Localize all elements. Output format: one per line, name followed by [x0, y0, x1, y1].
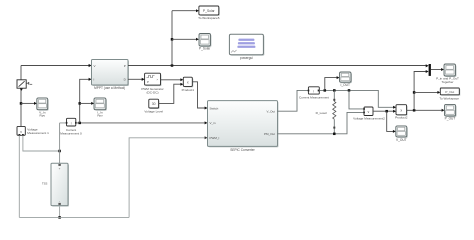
wire up to mux input 2: [414, 72, 426, 111]
svg-text:R_Load: R_Load: [316, 111, 327, 115]
product P1: [182, 77, 195, 92]
wire SEPIC PM_Out along bottom net: [277, 112, 364, 133]
P_Out to-workspace box: [439, 88, 460, 101]
svg-text:Switch: Switch: [210, 106, 219, 110]
scope display I (display2): [94, 98, 107, 118]
svg-text:MPPT (use a Method): MPPT (use a Method): [94, 86, 125, 90]
wire I trunk up to MPPT: [80, 79, 89, 123]
svg-text:x: x: [400, 108, 402, 112]
PV array block TSS: [42, 163, 69, 206]
wire V trunk from VM1 up: [20, 66, 22, 127]
P_Solar scope: [199, 34, 212, 51]
svg-text:P: P: [124, 64, 126, 68]
svg-text:P: P: [147, 80, 149, 84]
P_Solar goto (To Workspace5): [198, 6, 220, 20]
node junction at (334.3,133.8): [333, 133, 336, 136]
wire PV bottom to rail: [59, 206, 61, 218]
wire bottom rail: [19, 216, 129, 218]
wire top net to VM2 plus: [349, 90, 364, 109]
constant Voltage Level 30: [144, 99, 163, 113]
node junction at (324.8,90.4): [324, 89, 327, 92]
wire up to I_OUT scope: [325, 78, 337, 91]
ramp block Irr: [17, 80, 32, 91]
svg-text:Product1: Product1: [182, 88, 195, 92]
wire down to V_OUT scope: [387, 111, 394, 131]
svg-text:30: 30: [152, 102, 156, 106]
svg-text:PM_Out: PM_Out: [264, 132, 275, 136]
svg-text:I_OUT: I_OUT: [340, 83, 350, 87]
scope V_OUT: [396, 126, 408, 142]
node junction at (172,65.5): [171, 64, 174, 67]
node junction at (79.7,122.9): [78, 122, 81, 125]
node junction at (414.1,109.8): [413, 109, 416, 112]
svg-text:PWM_I: PWM_I: [210, 136, 220, 140]
current measurement CM0: [60, 118, 82, 135]
wire rail up to SEPIC PWM_I: [129, 138, 205, 218]
svg-text:Current Measurement: Current Measurement: [299, 96, 329, 100]
svg-text:To Workspace: To Workspace: [439, 97, 459, 101]
wire CM out along top net to Product2: [319, 90, 393, 107]
svg-text:P_Solar: P_Solar: [199, 47, 211, 51]
wire const to Product1 second input: [159, 84, 181, 103]
svg-text:SEPIC Converter: SEPIC Converter: [230, 148, 255, 152]
node junction at (349,90.4): [348, 89, 351, 92]
scope P_OUT: [445, 104, 457, 120]
wire VM1 bottom-right to PV node: [23, 135, 60, 151]
svg-text:Rpv: Rpv: [40, 114, 46, 118]
powergui block: [229, 34, 264, 60]
svg-text:Ppv: Ppv: [97, 114, 103, 118]
svg-text:powergui: powergui: [240, 56, 253, 60]
svg-text:Voltage Level: Voltage Level: [144, 110, 163, 114]
SEPIC converter block: [208, 101, 279, 152]
scope P_in and P_OuT Together: [436, 64, 459, 84]
node junction at (386.7,111.2): [385, 110, 388, 113]
svg-text:Measurement 0: Measurement 0: [60, 132, 82, 136]
svg-text:Product2: Product2: [395, 115, 408, 119]
svg-text:Measurement 1: Measurement 1: [27, 131, 49, 135]
node junction at (59.6,151): [58, 150, 61, 153]
wire trunk up to P_Solar: [171, 11, 173, 66]
scope display V (display1): [37, 98, 49, 118]
wire to I display: [80, 102, 92, 104]
svg-text:P_Solar: P_Solar: [203, 9, 216, 13]
wire PV top to CM0: [60, 123, 67, 163]
svg-text:TSS: TSS: [42, 181, 48, 185]
svg-text:+: +: [59, 167, 61, 171]
node junction at (414.1,92.4): [413, 91, 416, 94]
svg-text:Together: Together: [441, 80, 453, 84]
wire VM2 out to Product2: [373, 110, 393, 112]
node junction at (21,103.4): [20, 102, 23, 105]
wire CM0 to SEPIC V_in: [76, 122, 205, 124]
PWM generator block: [141, 73, 163, 94]
svg-text:P_OUT: P_OUT: [445, 117, 456, 121]
wire VM1 bottom-left to rail: [18, 135, 20, 217]
svg-text:V: V: [94, 64, 96, 68]
current measurement CM: [299, 87, 329, 100]
wire SEPIC V_Out to current measurement: [277, 90, 308, 111]
MPPT block: [92, 60, 130, 90]
wire to P_Solar goto: [172, 10, 196, 12]
product P2: [395, 105, 408, 120]
svg-text:V_in: V_in: [210, 121, 216, 125]
node junction at (59.6,217.4): [58, 216, 61, 219]
voltage measurement VM2: [353, 107, 385, 121]
svg-text:V_Out: V_Out: [266, 110, 275, 114]
wire to P_Out workspace: [414, 91, 438, 93]
svg-text:Voltage Measurement2: Voltage Measurement2: [353, 117, 385, 121]
wire to P_Solar scope: [172, 38, 196, 40]
svg-text:To Workspace5: To Workspace5: [198, 16, 220, 20]
voltage measurement VM1: [17, 126, 49, 135]
wire MPPT D out to PWM generator: [128, 78, 142, 80]
wire to V display: [21, 102, 34, 104]
resistor R_Load: [316, 90, 336, 133]
svg-text:V_OUT: V_OUT: [396, 138, 407, 142]
node junction at (334.3,90.4): [333, 89, 336, 92]
wire MPPT P out to mux (long): [128, 65, 426, 67]
wire Product1 to SEPIC Switch: [192, 82, 205, 108]
svg-text:P_Out: P_Out: [445, 90, 454, 94]
svg-text:x: x: [187, 80, 189, 84]
svg-text:(DC-DC): (DC-DC): [146, 90, 158, 94]
node junction at (79.7,103.4): [78, 102, 81, 105]
wire PWM out to Product1: [161, 79, 181, 81]
scope I_OUT: [340, 72, 353, 87]
wire V to MPPT input: [21, 65, 89, 67]
mux: [429, 64, 444, 76]
svg-text:v: v: [20, 130, 22, 134]
wire Product2 out to P_OUT scope: [407, 109, 442, 111]
svg-text:-: -: [59, 199, 60, 203]
node junction at (172,39.3): [171, 38, 174, 41]
